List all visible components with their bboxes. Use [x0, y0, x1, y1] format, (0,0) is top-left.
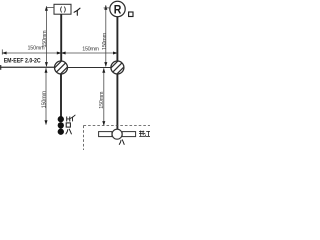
dimension: bottom-right vertical 150mm: [99, 68, 105, 126]
wire: left joint box down to switches: [60, 74, 62, 117]
lamp receptacle R: [110, 1, 125, 16]
dimension: bottom-left vertical 150mm: [41, 68, 47, 125]
right joint box: [106, 57, 128, 79]
wire between joint boxes: [68, 67, 111, 69]
label katakana HA (lamp): [119, 140, 124, 145]
wire: R to right joint box: [116, 17, 118, 62]
text 施工(省略) simplified strokes: [139, 131, 151, 137]
fluorescent lamp (construction omitted): [99, 129, 136, 139]
svg-text:150mm: 150mm: [102, 32, 108, 50]
svg-text:R: R: [114, 2, 122, 16]
wire: box to left joint box: [60, 14, 62, 61]
switch dot 2: [58, 122, 64, 128]
katakana RO label (top right): [129, 12, 133, 17]
dimension: top-left vertical 150mm: [42, 6, 54, 67]
switch dot 3: [58, 129, 64, 135]
label katakana RO (switch 2): [66, 123, 70, 127]
ceiling rose box (kakugata hikkake ceiling): [54, 4, 71, 14]
svg-text:150mm: 150mm: [82, 47, 99, 53]
label katakana I (switch 1): [70, 115, 75, 121]
svg-text:150mm: 150mm: [99, 91, 105, 109]
svg-text:EM-EEF 2.0-2C: EM-EEF 2.0-2C: [4, 58, 42, 65]
dimension: top-right vertical 150mm: [102, 5, 110, 67]
label katakana HA (switch 3): [66, 129, 72, 134]
katakana I label (top): [74, 8, 80, 15]
dimension: horizontal 150mm (between joint boxes): [61, 47, 118, 55]
svg-text:150mm: 150mm: [28, 46, 46, 52]
wire: right joint box down to lamp: [116, 74, 118, 129]
svg-text:150mm: 150mm: [41, 91, 47, 109]
dimension: horizontal 150mm (power to left box): [2, 46, 62, 55]
dashed boundary of omitted section: [84, 126, 151, 151]
power line (EM-EEF): [0, 66, 55, 68]
left joint box: [50, 57, 72, 79]
power line end tick: [0, 65, 2, 70]
switch dot 1 (with pilot light H): [58, 116, 64, 122]
